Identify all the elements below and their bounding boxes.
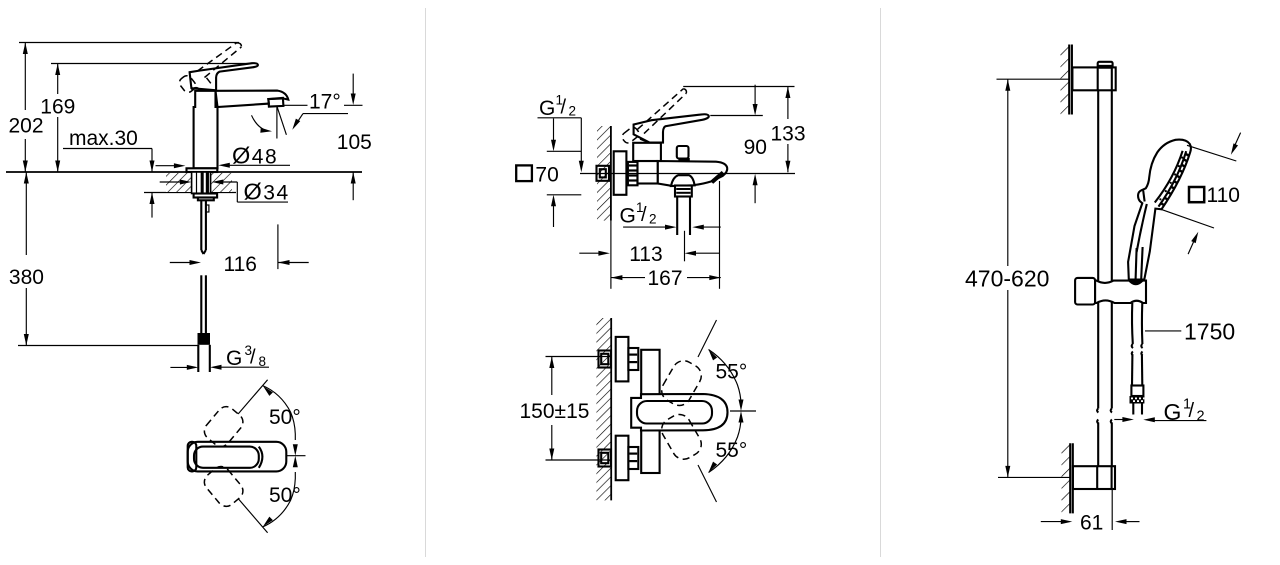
max.30 lower arrow bbox=[150, 193, 155, 218]
faucet base flange bbox=[187, 168, 218, 172]
svg-text:105: 105 bbox=[337, 131, 372, 154]
svg-text:2: 2 bbox=[1197, 408, 1205, 424]
shower handle cone lines bbox=[1136, 247, 1143, 279]
G1/2 leader arrow bbox=[579, 118, 584, 173]
handle top view outer bbox=[188, 442, 287, 472]
svg-text:max.30: max.30 bbox=[69, 127, 138, 150]
50deg upper arc bbox=[261, 384, 298, 455]
svg-text:/: / bbox=[1189, 400, 1195, 422]
70 upper ext line bbox=[547, 150, 582, 152]
svg-text:61: 61 bbox=[1080, 512, 1103, 535]
G1/2 hose label bbox=[620, 200, 657, 227]
svg-text:70: 70 bbox=[535, 163, 558, 186]
svg-text:150±15: 150±15 bbox=[520, 400, 590, 423]
spout tip extension bbox=[719, 181, 721, 289]
top ref line bbox=[997, 78, 1070, 80]
17deg leader line bbox=[303, 113, 348, 115]
55deg upper tilt line bbox=[698, 320, 717, 357]
hose outlet pipe bbox=[677, 197, 690, 236]
dashed handle plan up55 bbox=[658, 357, 706, 410]
outlet level ref line bbox=[284, 104, 308, 106]
55deg upper arc bbox=[706, 348, 743, 411]
G1/2 right arrows bbox=[1114, 417, 1206, 422]
mounting shank bbox=[192, 172, 211, 194]
panel separator right bbox=[880, 8, 882, 557]
handle level ref line bbox=[710, 115, 763, 117]
hose outlet nut bbox=[675, 186, 692, 197]
svg-text:/: / bbox=[250, 347, 256, 369]
dashed handle plan down55 bbox=[658, 410, 706, 463]
face dim arrow upper bbox=[1229, 133, 1241, 156]
dim 113 bbox=[579, 251, 719, 256]
handle plan inner bbox=[637, 401, 712, 424]
svg-text:55°: 55° bbox=[716, 361, 748, 384]
70 upper arrow bbox=[551, 119, 556, 152]
dim 380 line bbox=[24, 172, 29, 346]
G3/8 arrows bbox=[170, 365, 269, 370]
dim 105 upper arrow bbox=[351, 74, 356, 105]
lower escutcheon bbox=[616, 436, 629, 481]
counter/deck line bbox=[6, 171, 362, 173]
upper inlet elbow bbox=[599, 351, 612, 368]
svg-text:17°: 17° bbox=[309, 91, 341, 114]
dashed grip lifted bbox=[177, 74, 197, 95]
plan centerline bbox=[730, 410, 756, 412]
handle lifted dashed bbox=[198, 43, 237, 71]
dim 202 line bbox=[23, 43, 28, 173]
spray face dots bbox=[1159, 153, 1189, 206]
G1/2 top label bbox=[539, 93, 576, 120]
dim O48 arrows bbox=[156, 163, 291, 168]
deck hatch left bbox=[166, 173, 192, 192]
dim 167 bbox=[611, 275, 721, 280]
pipe threaded end bbox=[198, 345, 210, 372]
dim 169 line bbox=[55, 64, 60, 173]
wall face line bottom fig bbox=[610, 318, 612, 500]
svg-text:2: 2 bbox=[649, 211, 657, 226]
50deg lower arc bbox=[261, 456, 298, 529]
hose lower bbox=[1132, 355, 1142, 386]
svg-text:50°: 50° bbox=[269, 406, 301, 429]
svg-text:169: 169 bbox=[40, 95, 75, 118]
70 lower ext line bbox=[547, 194, 582, 196]
17deg arc arrow bbox=[252, 115, 273, 133]
dim 150+-15 ext top bbox=[546, 356, 612, 358]
diverter knob bbox=[677, 146, 689, 159]
escutcheon plate side bbox=[614, 151, 627, 195]
head face inner line bbox=[1159, 151, 1187, 206]
17deg leader arrow bbox=[290, 114, 303, 131]
ref line top (overall height 202) bbox=[19, 42, 239, 44]
hose nut knurled bbox=[1130, 396, 1145, 404]
handle top view inner bbox=[194, 447, 259, 468]
svg-text:202: 202 bbox=[9, 114, 44, 137]
shank locknut bbox=[194, 194, 218, 198]
90 lower arrow bbox=[753, 174, 758, 204]
top wall line bbox=[1069, 45, 1072, 115]
inlet elbow in wall bbox=[597, 166, 610, 181]
glider body bbox=[1095, 281, 1146, 303]
G1/2 hose arrows bbox=[623, 225, 721, 230]
wall face line bbox=[610, 126, 612, 221]
rail top cap bbox=[1098, 62, 1113, 68]
dim 116 bbox=[170, 260, 309, 265]
top bracket bbox=[1072, 67, 1115, 90]
hose break bbox=[1132, 344, 1143, 356]
supply pipe upper bbox=[201, 200, 209, 254]
handle plan solid bbox=[631, 394, 727, 431]
head button inner bbox=[1143, 191, 1144, 202]
ref line pipe end (380 bottom) bbox=[18, 345, 198, 347]
dashed handle rotated up 50 bbox=[201, 403, 247, 450]
dim 150+-15 ext bottom bbox=[546, 459, 612, 461]
svg-text:50°: 50° bbox=[269, 484, 301, 507]
upper escutcheon bbox=[616, 337, 629, 382]
svg-text:/: / bbox=[641, 204, 647, 226]
water stream ref vertical bbox=[276, 107, 278, 139]
panel separator left bbox=[425, 8, 427, 557]
square 110 symbol bbox=[1189, 187, 1204, 202]
handle lever solid (side) bbox=[634, 114, 709, 142]
spout arm bbox=[216, 91, 289, 107]
svg-text:Ø34: Ø34 bbox=[244, 179, 290, 205]
svg-text:110: 110 bbox=[1207, 184, 1240, 207]
ref line handle level (169) bbox=[51, 63, 257, 65]
rail lower section bbox=[1098, 423, 1112, 467]
svg-text:G: G bbox=[620, 205, 636, 228]
handle top view grip cap bbox=[188, 442, 197, 472]
lower inlet elbow bbox=[599, 450, 612, 467]
wall hatch bottom fig bbox=[596, 318, 611, 500]
dim 150+-15 line bbox=[549, 357, 554, 461]
water stream 17deg line bbox=[277, 106, 287, 135]
bottom wall hatch bbox=[1062, 443, 1071, 513]
50deg upper tilt line bbox=[238, 380, 268, 414]
bottom wall line bbox=[1070, 443, 1073, 513]
svg-text:55°: 55° bbox=[716, 439, 748, 462]
90 upper arrow bbox=[753, 85, 758, 116]
svg-text:Ø48: Ø48 bbox=[232, 142, 278, 168]
svg-text:/: / bbox=[561, 97, 567, 119]
head inner line 2 bbox=[1155, 151, 1183, 203]
svg-text:8: 8 bbox=[259, 354, 267, 369]
svg-text:116: 116 bbox=[224, 253, 257, 276]
svg-text:G: G bbox=[539, 97, 555, 120]
spout bbox=[658, 161, 727, 186]
dim 61 bbox=[1041, 519, 1140, 524]
square 70 symbol bbox=[516, 165, 532, 181]
svg-text:113: 113 bbox=[629, 243, 662, 266]
svg-text:2: 2 bbox=[569, 104, 577, 119]
wall hatch bbox=[597, 126, 611, 221]
rail upper section bbox=[1098, 90, 1112, 408]
svg-text:1750: 1750 bbox=[1184, 319, 1235, 345]
handle inner edge line bbox=[1137, 204, 1147, 252]
face dim ext line lower bbox=[1161, 209, 1214, 228]
face dim ext line upper bbox=[1187, 145, 1236, 161]
aerator mousseur bbox=[268, 98, 283, 107]
dashed handle rotated down 50 bbox=[201, 463, 247, 510]
50deg lower tilt line bbox=[238, 499, 268, 533]
spout tip extension line bbox=[277, 224, 279, 269]
handle lever solid bbox=[190, 63, 258, 90]
55deg lower arc bbox=[706, 411, 743, 474]
bottom bracket bbox=[1073, 466, 1115, 489]
glider socket shadow bbox=[1128, 280, 1145, 285]
133 dim line bbox=[785, 87, 790, 173]
mixer body block bbox=[638, 161, 658, 184]
handle top view front curve bbox=[259, 447, 263, 468]
supply pipe lower bbox=[201, 275, 206, 333]
svg-text:380: 380 bbox=[9, 266, 44, 289]
70 lower arrow bbox=[551, 195, 556, 227]
hose upper bbox=[1131, 303, 1134, 344]
body plan view bbox=[641, 350, 659, 473]
rail break bbox=[1097, 409, 1112, 424]
fixture centerline bbox=[580, 173, 795, 175]
hose collar bbox=[1131, 386, 1143, 397]
shower outlet dome bbox=[671, 175, 695, 186]
diverter knob base bbox=[678, 158, 689, 161]
55deg lower tilt line bbox=[698, 465, 717, 502]
dim 470-620 line bbox=[1005, 79, 1010, 477]
glider left knob bbox=[1075, 278, 1095, 305]
svg-text:470-620: 470-620 bbox=[965, 266, 1049, 292]
G1/2 label right bbox=[1164, 397, 1205, 425]
lower union nut bbox=[628, 447, 638, 469]
deck underside line bbox=[144, 192, 236, 194]
cartridge block bbox=[633, 143, 661, 161]
svg-text:133: 133 bbox=[771, 123, 806, 146]
hose end pipe bbox=[1133, 404, 1142, 415]
top wall hatch bbox=[1061, 45, 1070, 115]
dim O34 arrows + leader bbox=[160, 180, 288, 203]
deck hatch right bbox=[211, 173, 233, 192]
G1/2 underline bbox=[538, 117, 582, 119]
dashed lifted handle (side) bbox=[638, 89, 684, 130]
hose center extension bbox=[684, 231, 686, 261]
upper union nut bbox=[628, 348, 638, 370]
dim 105 lower arrow bbox=[351, 172, 356, 200]
union nut bbox=[628, 162, 638, 185]
bottom ref line bbox=[998, 476, 1070, 478]
faucet body column bbox=[194, 91, 218, 169]
dashed tip ref line bbox=[683, 86, 794, 88]
svg-text:90: 90 bbox=[744, 136, 767, 159]
dashed grip (side) bbox=[620, 126, 640, 145]
cartridge dome arc bbox=[192, 88, 201, 91]
svg-text:167: 167 bbox=[648, 267, 683, 290]
face dim arrow lower bbox=[1188, 231, 1200, 254]
wall face extension bbox=[610, 221, 612, 289]
61 ext line bbox=[1111, 489, 1113, 530]
hand shower head bbox=[1128, 140, 1191, 280]
max.30 leader bbox=[63, 149, 155, 173]
pipe end connector G3/8 nut bbox=[198, 333, 211, 345]
G3/8 label bbox=[226, 343, 266, 370]
spout mousseur bbox=[711, 171, 725, 183]
top view centerline bbox=[287, 455, 306, 457]
1750 leader bbox=[1145, 330, 1181, 332]
